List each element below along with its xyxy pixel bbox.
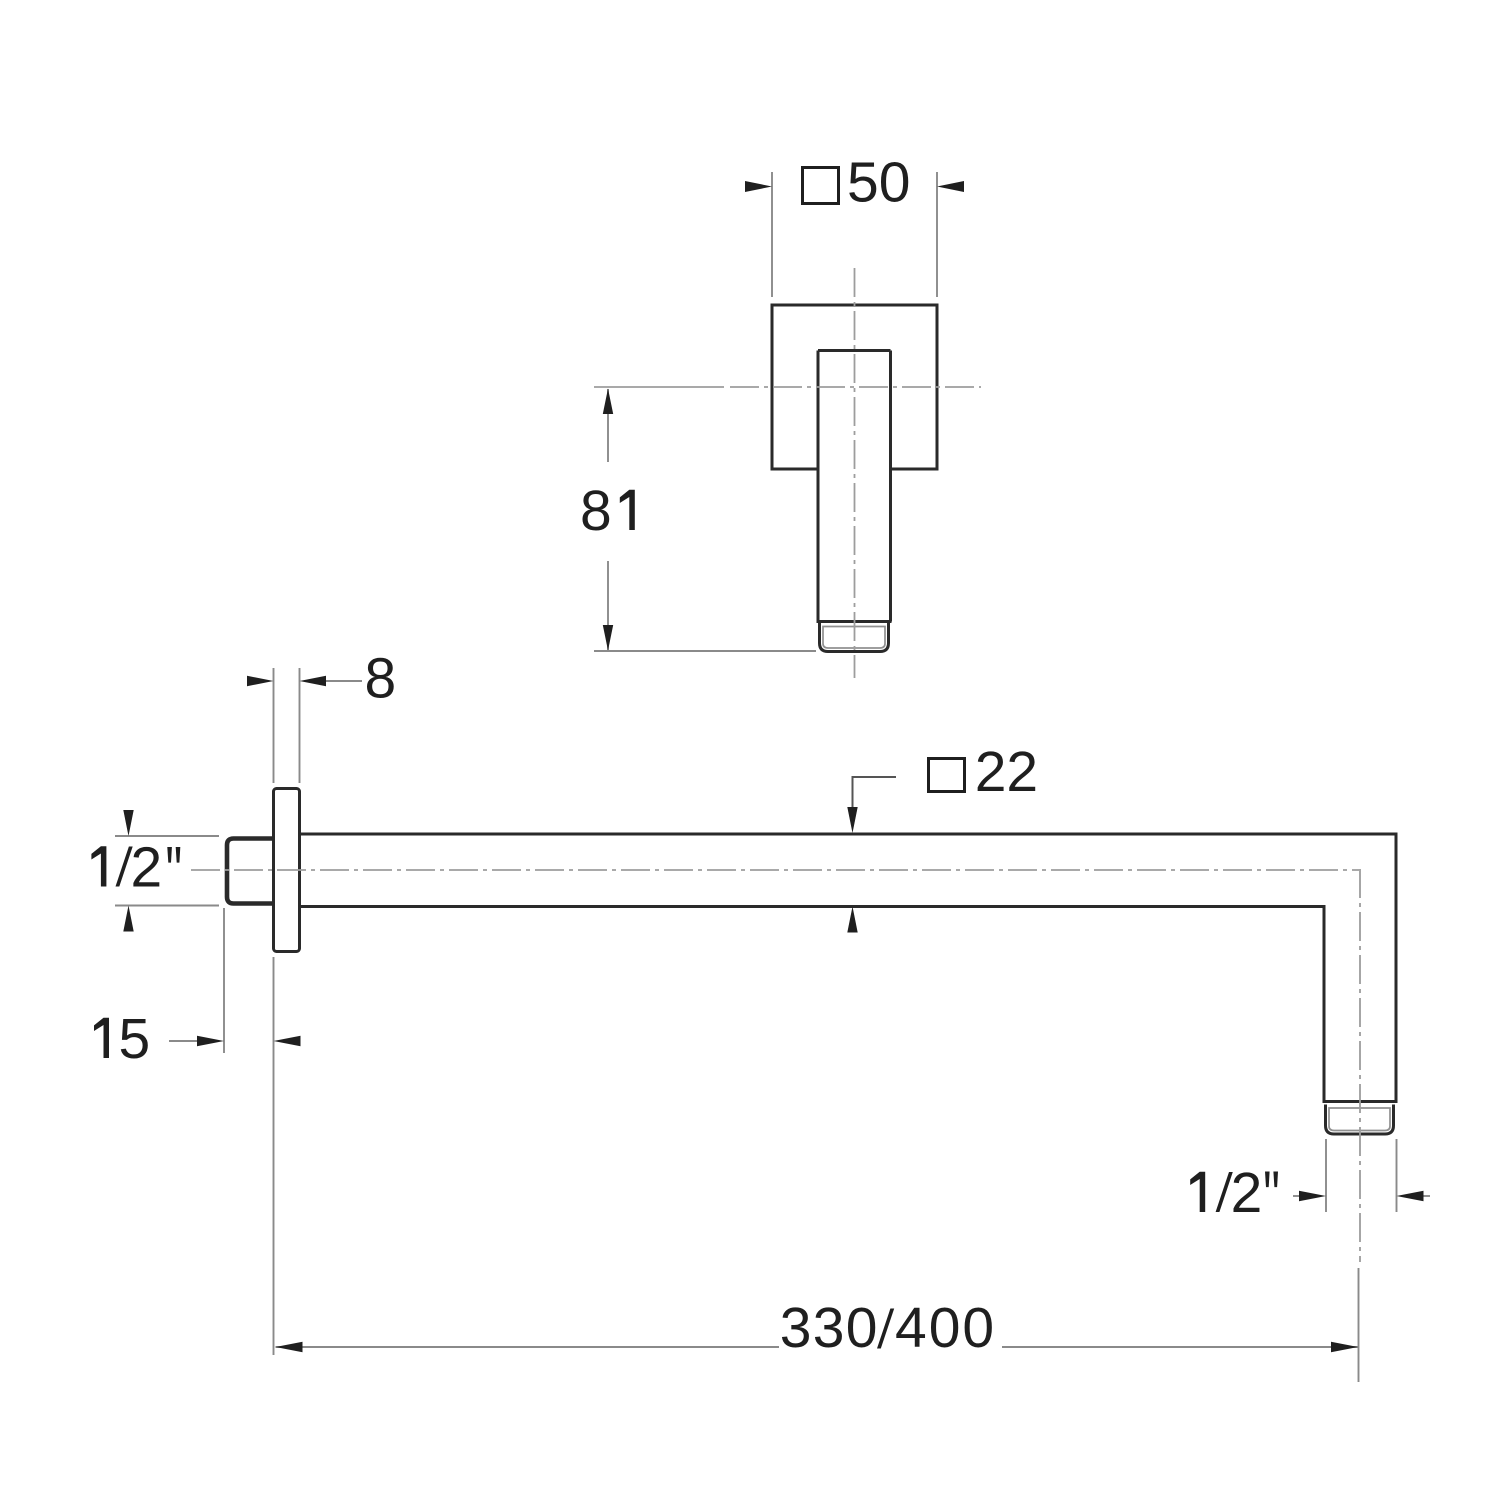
label square22: leader line bbox=[853, 777, 897, 827]
dimension 81: lower line and arrowhead bbox=[607, 561, 609, 650]
shower arm inner outline bbox=[300, 907, 1325, 1102]
dimension half-inch outlet: value 1/2 inch bbox=[1190, 1172, 1205, 1212]
dimension 15: right arrowhead bbox=[274, 1036, 301, 1046]
dimension 8: right extension line bbox=[299, 668, 301, 783]
arm thread inner line bbox=[1329, 1108, 1390, 1131]
svg-text:2: 2 bbox=[131, 836, 163, 900]
svg-text:400: 400 bbox=[895, 1296, 996, 1360]
wall nipple bbox=[227, 839, 275, 904]
arm tube end line bbox=[1323, 1100, 1398, 1103]
horizontal centerline (top figure): long lead segment bbox=[594, 386, 724, 388]
dimension 330/400: right extension line bbox=[1358, 1268, 1360, 1382]
dimension square50: left arrowhead bbox=[745, 181, 772, 192]
label square22: leader arrowhead bbox=[847, 807, 857, 833]
dimension 81: upper line and arrowhead bbox=[607, 389, 609, 462]
svg-text:2: 2 bbox=[1231, 1161, 1263, 1225]
label square22: square symbol bbox=[929, 759, 965, 792]
dimension 15: right extension line (wall face, shared with 330/400) bbox=[273, 957, 275, 1355]
dimension square50: square symbol bbox=[803, 168, 839, 204]
dimension square50: right arrowhead bbox=[937, 181, 964, 192]
horizontal centerline (bottom figure) bbox=[191, 869, 1359, 871]
ceiling arm tube bbox=[818, 351, 891, 622]
dimension half-inch wall: bottom extension line bbox=[115, 905, 219, 907]
dimension half-inch wall: lower arrowhead bbox=[123, 906, 133, 932]
svg-text:330: 330 bbox=[780, 1296, 879, 1360]
dimension half-inch outlet: left tail and arrowhead bbox=[1293, 1195, 1301, 1197]
dimension half-inch outlet: right tail and arrowhead bbox=[1397, 1191, 1424, 1201]
svg-text:5: 5 bbox=[119, 1007, 151, 1071]
dimension square50: left extension line bbox=[771, 172, 773, 297]
svg-text:22: 22 bbox=[975, 740, 1038, 804]
svg-text:8: 8 bbox=[365, 647, 397, 711]
dimension half-inch outlet: left extension line bbox=[1325, 1139, 1327, 1212]
label square22: lower arrowhead bbox=[847, 907, 857, 933]
vertical centerline (bottom figure) bbox=[1359, 869, 1361, 1262]
dimension 15: left extension line bbox=[223, 908, 225, 1053]
dimension 8: right arrowhead and tail bbox=[300, 676, 327, 686]
dimension 330/400: left line segment and arrowhead bbox=[276, 1346, 780, 1348]
dimension 81: bottom extension line bbox=[594, 650, 816, 652]
shower arm outer outline bbox=[300, 834, 1397, 1102]
ceiling tube thread inner line bbox=[823, 627, 885, 649]
dimension half-inch wall: value 1/2 inch bbox=[91, 846, 106, 886]
dimension half-inch wall: upper arrowhead bbox=[123, 810, 133, 836]
ceiling tube end line bbox=[817, 620, 892, 623]
dimension 15: value 15 bbox=[94, 1018, 109, 1058]
dimension 8: left arrowhead bbox=[247, 676, 274, 686]
dimension 8: left extension line bbox=[273, 668, 275, 783]
dimension 330/400: right line segment and arrowhead bbox=[1002, 1346, 1358, 1348]
ceiling flange (top view) bbox=[772, 305, 937, 469]
arm thread bbox=[1326, 1105, 1394, 1135]
dimension half-inch outlet: right extension line bbox=[1396, 1139, 1398, 1212]
svg-text:8: 8 bbox=[580, 479, 612, 543]
vertical centerline (top figure) bbox=[854, 268, 856, 678]
wall flange (side view) bbox=[274, 789, 300, 952]
svg-text:50: 50 bbox=[847, 151, 910, 215]
dimension 15: left tail and arrowhead bbox=[169, 1040, 198, 1042]
dimension square50: right extension line bbox=[936, 172, 938, 297]
horizontal centerline (top figure): dash-dot part bbox=[730, 386, 981, 388]
ceiling tube thread bbox=[820, 623, 889, 652]
dimension half-inch wall: top extension line bbox=[115, 835, 219, 837]
